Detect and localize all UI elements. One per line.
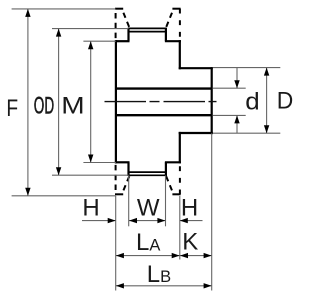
right tooth flank bottom: [165, 162, 167, 176]
vertical extension at left tooth flank: [128, 176, 130, 227]
right flange bottom edge: [172, 193, 180, 195]
flange outlines (dashed phantom): [115, 9, 181, 195]
tooth bottom outer line: [128, 174, 167, 176]
D top extension line: [213, 67, 280, 69]
K right arrow: [204, 253, 212, 258]
svg-text:d: d: [245, 89, 259, 115]
svg-text:F: F: [6, 94, 18, 122]
d dimension line upper: [236, 68, 238, 88]
F top arrow: [25, 9, 30, 17]
arrowheads: [25, 9, 269, 289]
svg-text:OD: OD: [34, 94, 54, 120]
right flange top slant: [166, 9, 174, 29]
centerline: [105, 101, 217, 103]
H right arrow (left-pointing): [180, 218, 188, 223]
d dimension line lower: [236, 115, 238, 133]
right flange outer edge top: [179, 9, 181, 41]
M top arrow: [88, 41, 93, 49]
tooth bottom inner line: [128, 171, 167, 173]
H left dimension line: [82, 220, 116, 222]
shoulder top right edge: [165, 40, 181, 42]
left flange outer edge bottom: [115, 163, 117, 194]
dimension lines (thin): [28, 9, 267, 286]
W left arrow (left-pointing): [129, 218, 137, 223]
D bottom extension line: [213, 132, 280, 134]
shoulder top left edge: [115, 40, 130, 42]
tooth top outer line: [128, 27, 167, 29]
right flange top edge: [172, 8, 180, 10]
D dimension line: [266, 68, 268, 133]
F bottom extension line: [12, 195, 116, 197]
M dimension line: [90, 41, 92, 162]
left flange bottom slant: [122, 175, 130, 194]
d bottom extension line: [213, 114, 246, 116]
hub bottom edge: [179, 132, 213, 134]
OD top extension line: [52, 28, 129, 30]
hub right face: [211, 67, 213, 134]
D bottom arrow: [264, 125, 269, 133]
left flange top slant: [122, 9, 130, 29]
W right arrow (right-pointing): [157, 218, 165, 223]
hub top edge: [179, 67, 213, 69]
LA left arrow: [116, 253, 124, 258]
svg-text:H: H: [181, 195, 198, 222]
OD dimension line: [58, 29, 60, 175]
vertical extension at right face: [179, 196, 181, 260]
LB left arrow: [116, 283, 124, 288]
left tooth flank top: [127, 28, 129, 41]
H right dimension line: [180, 220, 203, 222]
LA right arrow: [172, 253, 180, 258]
M bottom arrow: [88, 155, 93, 163]
right flange outer edge bottom: [179, 163, 181, 194]
shoulder bottom left edge: [115, 161, 130, 163]
left tooth flank bottom: [127, 162, 129, 176]
OD bottom extension line: [52, 174, 129, 176]
K dimension line: [180, 255, 212, 257]
LB dimension line: [116, 285, 212, 287]
svg-text:H: H: [82, 195, 99, 222]
F dimension line: [27, 9, 29, 196]
tooth top inner line: [128, 31, 167, 33]
left flange top edge: [115, 8, 123, 10]
M bottom extension line: [83, 162, 116, 164]
vertical extension at left face: [115, 196, 117, 291]
body left face: [115, 40, 117, 163]
d lower arrow (up): [234, 115, 239, 123]
shoulder bottom right edge: [165, 161, 181, 163]
F bottom arrow: [25, 188, 30, 196]
vertical extension at right tooth flank: [165, 176, 167, 227]
F top extension line: [12, 8, 116, 10]
left flange outer edge top: [115, 9, 117, 41]
K left arrow: [180, 253, 188, 258]
extension lines (thin): [12, 9, 281, 291]
svg-text:M: M: [61, 93, 84, 118]
LB right arrow: [204, 283, 212, 288]
body right face lower: [179, 132, 181, 164]
d upper arrow (down): [234, 80, 239, 88]
H left arrow (right-pointing): [108, 218, 116, 223]
OD top arrow: [56, 29, 61, 37]
body right face upper: [179, 40, 181, 69]
svg-text:W: W: [137, 195, 160, 222]
pulley body outline: [115, 28, 213, 176]
right tooth flank top: [165, 28, 167, 41]
OD bottom arrow: [56, 167, 61, 175]
vertical extension at hub face: [211, 133, 213, 290]
d top extension line: [213, 87, 246, 89]
D top arrow: [264, 68, 269, 76]
svg-text:D: D: [277, 87, 294, 113]
right flange bottom slant: [166, 175, 174, 194]
bore bottom line: [116, 114, 212, 116]
left flange bottom edge: [115, 193, 123, 195]
W dimension line: [129, 220, 165, 222]
bore top line: [116, 87, 212, 89]
LA dimension line: [116, 255, 180, 257]
M top extension line: [83, 40, 116, 42]
svg-text:K: K: [182, 228, 198, 255]
